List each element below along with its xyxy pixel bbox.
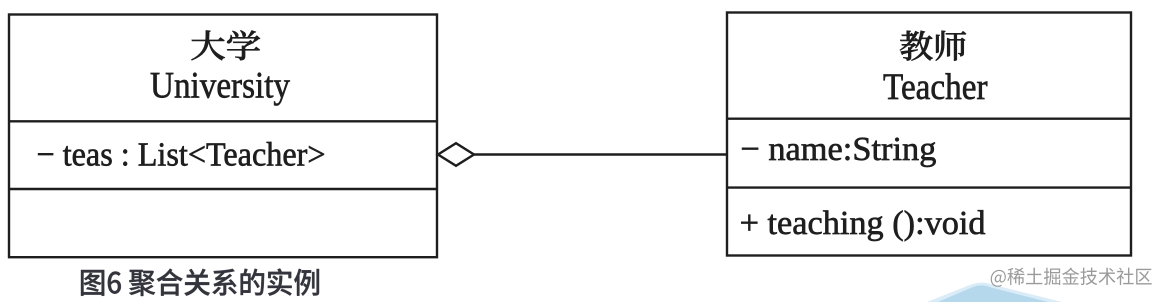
association line University-Teacher — [472, 153, 727, 155]
aggregation diamond at University end — [438, 143, 474, 166]
class box Teacher: divider title/attributes — [727, 117, 1131, 119]
class box Teacher: divider attributes/operations — [727, 186, 1131, 188]
class box Teacher: outer frame — [727, 13, 1131, 256]
class box University: divider title/attributes — [9, 120, 437, 122]
svg-text:− name:String: − name:String — [740, 131, 936, 168]
svg-text:+ teaching ():void: + teaching ():void — [740, 205, 986, 242]
class box University: outer frame — [9, 15, 437, 258]
watermark text @稀土掘金技术社区 — [991, 268, 1152, 287]
class box University: divider attributes/operations — [9, 188, 437, 190]
class name 大学 — [191, 30, 260, 60]
class name 教师 — [900, 31, 966, 61]
svg-text:− teas : List<Teacher>: − teas : List<Teacher> — [37, 136, 326, 173]
watermark logo outer light-blue mountain — [927, 283, 1062, 302]
watermark logo inner blue mountain — [938, 285, 1048, 302]
caption 图6 聚合关系的实例 — [81, 268, 319, 295]
svg-text:University: University — [150, 65, 290, 106]
svg-text:Teacher: Teacher — [883, 67, 988, 108]
